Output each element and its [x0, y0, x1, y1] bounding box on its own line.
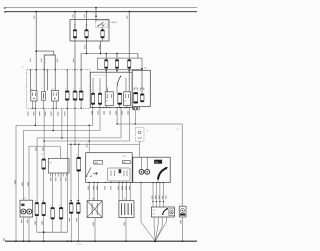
svg-text:A15: A15 [123, 154, 126, 157]
svg-text:F: F [91, 90, 92, 92]
svg-text:S2b: S2b [144, 68, 147, 70]
svg-text:K2: K2 [52, 88, 54, 90]
svg-text:0.75 br: 0.75 br [76, 244, 83, 246]
svg-text:K1: K1 [31, 88, 33, 90]
svg-text:F: F [65, 88, 66, 90]
svg-text:8#8: 8#8 [153, 210, 156, 212]
svg-text:Y3: Y3 [146, 131, 148, 133]
svg-text:85: 85 [106, 98, 108, 100]
svg-text:b: b [45, 62, 46, 64]
svg-text:S5: S5 [41, 154, 43, 156]
svg-text:a: a [45, 59, 46, 61]
svg-text:KBA/W: KBA/W [111, 21, 118, 24]
svg-text:F: F [79, 88, 80, 90]
svg-text:30: 30 [73, 27, 75, 29]
svg-text:88: 88 [153, 214, 155, 216]
svg-text:M4: M4 [92, 199, 95, 201]
svg-text:30: 30 [85, 27, 87, 29]
svg-text:#############: ############# [93, 75, 107, 77]
svg-text:X9: X9 [124, 199, 126, 201]
svg-text:S6: S6 [76, 154, 78, 156]
svg-text:86: 86 [106, 101, 108, 103]
svg-text:F: F [98, 90, 99, 92]
svg-text:30: 30 [124, 101, 126, 103]
svg-text:Dx: Dx [177, 129, 179, 131]
svg-text:F: F [73, 88, 74, 90]
svg-text:50: 50 [105, 24, 107, 26]
